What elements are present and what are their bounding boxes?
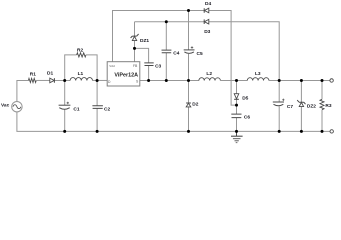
svg-text:D2: D2 xyxy=(192,101,198,107)
svg-text:DZ1: DZ1 xyxy=(140,38,149,44)
svg-text:D5: D5 xyxy=(242,95,248,101)
svg-text:Vdd: Vdd xyxy=(109,64,115,68)
svg-text:L1: L1 xyxy=(78,71,84,77)
svg-text:D1: D1 xyxy=(47,71,53,77)
svg-text:Vac: Vac xyxy=(1,102,10,108)
svg-text:C4: C4 xyxy=(173,51,179,57)
svg-text:DZ2: DZ2 xyxy=(307,103,316,109)
svg-text:C2: C2 xyxy=(104,106,110,112)
svg-text:L3: L3 xyxy=(255,71,261,77)
svg-text:D4: D4 xyxy=(205,1,211,7)
svg-text:R3: R3 xyxy=(325,103,331,109)
svg-text:C3: C3 xyxy=(155,63,161,69)
svg-text:D3: D3 xyxy=(204,29,210,35)
svg-text:R1: R1 xyxy=(30,71,36,77)
svg-text:C7: C7 xyxy=(287,104,293,110)
svg-text:R2: R2 xyxy=(77,47,83,53)
svg-text:C1: C1 xyxy=(73,107,79,113)
svg-text:C5: C5 xyxy=(197,51,203,57)
svg-text:C6: C6 xyxy=(244,114,250,120)
svg-text:FB: FB xyxy=(133,64,138,68)
svg-text:L2: L2 xyxy=(206,71,212,77)
svg-text:ViPer12A: ViPer12A xyxy=(114,73,138,79)
